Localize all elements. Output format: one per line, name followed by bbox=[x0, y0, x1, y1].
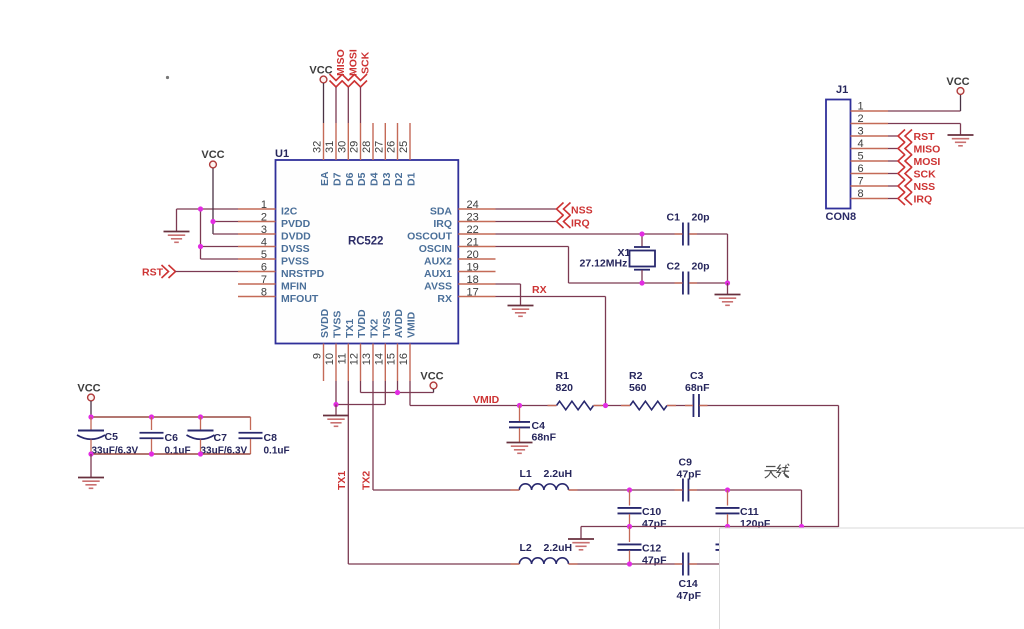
wire rail to ground bbox=[90, 454, 92, 477]
svg-text:D3: D3 bbox=[381, 172, 393, 186]
svg-text:C10: C10 bbox=[642, 506, 661, 518]
svg-text:26: 26 bbox=[386, 141, 398, 153]
wire VMID row bbox=[410, 405, 557, 407]
wire J1 MOSI bbox=[888, 160, 898, 162]
svg-text:MISO: MISO bbox=[335, 49, 347, 76]
svg-text:VCC: VCC bbox=[946, 76, 969, 88]
svg-text:0.1uF: 0.1uF bbox=[264, 446, 290, 457]
svg-text:28: 28 bbox=[361, 141, 373, 153]
svg-text:47pF: 47pF bbox=[642, 518, 667, 530]
resistor R1 bbox=[557, 401, 594, 410]
junction rail C6 bbox=[149, 414, 154, 419]
component terminal stubs bbox=[548, 405, 557, 407]
svg-text:SDA: SDA bbox=[430, 206, 453, 218]
wire osc right column bbox=[727, 234, 729, 283]
svg-text:OSCIN: OSCIN bbox=[419, 243, 452, 255]
off-page connector MOSI bbox=[342, 74, 355, 87]
wire AVSS to ground bbox=[496, 283, 521, 285]
J1 pin stubs bbox=[851, 110, 889, 112]
wire EA to VCC bbox=[323, 83, 325, 123]
wire OSCIN net bbox=[496, 246, 569, 248]
svg-text:C6: C6 bbox=[165, 432, 179, 444]
wire TX1 vertical bbox=[347, 381, 349, 564]
capacitor C3 bbox=[693, 394, 699, 417]
svg-text:PVDD: PVDD bbox=[281, 218, 311, 230]
svg-text:47pF: 47pF bbox=[642, 555, 667, 567]
ground left of U1 bbox=[164, 232, 190, 243]
svg-text:33uF/6.3V: 33uF/6.3V bbox=[201, 446, 248, 457]
svg-text:9: 9 bbox=[312, 353, 324, 359]
wire L2 to C14 bbox=[569, 563, 683, 565]
svg-text:VCC: VCC bbox=[420, 371, 443, 383]
svg-text:RST: RST bbox=[914, 131, 936, 143]
svg-text:D6: D6 bbox=[344, 172, 356, 186]
svg-text:R1: R1 bbox=[556, 370, 570, 382]
svg-text:AVSS: AVSS bbox=[424, 281, 452, 293]
svg-text:CON8: CON8 bbox=[826, 211, 857, 223]
svg-text:AUX2: AUX2 bbox=[424, 256, 452, 268]
svg-text:C5: C5 bbox=[105, 431, 119, 443]
svg-text:27.12MHz: 27.12MHz bbox=[580, 258, 628, 270]
power VCC decoupling bbox=[77, 383, 100, 401]
capacitor C13 partial under mask bbox=[727, 527, 729, 543]
svg-text:25: 25 bbox=[398, 141, 410, 153]
wire SDA net bbox=[496, 208, 557, 210]
ground J1 bbox=[948, 135, 974, 146]
svg-text:20p: 20p bbox=[692, 261, 710, 273]
capacitor C4 bbox=[519, 406, 521, 422]
svg-text:RST: RST bbox=[142, 267, 164, 279]
off-page connector NSS J1 side bbox=[898, 180, 912, 193]
svg-text:27: 27 bbox=[373, 141, 385, 153]
junction C11 top bbox=[725, 487, 730, 492]
wire TVSS pin14 bbox=[384, 381, 386, 405]
power VCC bottom bbox=[420, 371, 443, 389]
capacitor C2 bbox=[683, 272, 689, 295]
svg-text:TVSS: TVSS bbox=[332, 311, 344, 338]
junction C10 top bbox=[627, 487, 632, 492]
wire decoupling bottom rail bbox=[91, 453, 251, 455]
svg-text:31: 31 bbox=[324, 141, 336, 153]
svg-text:MFOUT: MFOUT bbox=[281, 293, 319, 305]
svg-text:EA: EA bbox=[319, 171, 331, 186]
junction VMID-C4 bbox=[517, 403, 522, 408]
svg-text:AUX1: AUX1 bbox=[424, 268, 452, 280]
wire J1 NSS bbox=[888, 185, 898, 187]
wire D5 to SCK bbox=[360, 87, 362, 123]
resistor R2 bbox=[630, 401, 667, 410]
svg-text:C4: C4 bbox=[532, 420, 546, 432]
svg-text:I2C: I2C bbox=[281, 206, 298, 218]
svg-text:NRSTPD: NRSTPD bbox=[281, 268, 325, 280]
ground decoupling bbox=[78, 478, 104, 489]
svg-text:VMID: VMID bbox=[473, 394, 500, 406]
wire D7 to MISO bbox=[335, 87, 337, 123]
svg-text:15: 15 bbox=[386, 353, 398, 365]
svg-text:IRQ: IRQ bbox=[433, 218, 452, 230]
off-page connector NSS bbox=[557, 203, 571, 216]
capacitor C8 bbox=[250, 417, 252, 430]
off-page connector IRQ chip side bbox=[557, 215, 571, 228]
svg-text:MOSI: MOSI bbox=[347, 49, 359, 76]
svg-text:2.2uH: 2.2uH bbox=[544, 468, 573, 480]
svg-text:MISO: MISO bbox=[914, 144, 941, 156]
svg-text:DVDD: DVDD bbox=[281, 231, 311, 243]
wire L1 to C9 bbox=[569, 489, 683, 491]
junction OSCOUT-X1 bbox=[639, 231, 644, 236]
off-page connector RST bbox=[162, 265, 176, 278]
capacitor C5 bbox=[90, 417, 92, 430]
ground mid rail bbox=[568, 539, 594, 550]
junction TVSS bbox=[333, 402, 338, 407]
svg-text:C12: C12 bbox=[642, 543, 661, 555]
wire AVDD pin15 bbox=[397, 381, 399, 393]
off-page connector MISO bbox=[330, 74, 343, 87]
wire TX2 vertical bbox=[372, 381, 374, 490]
wire R2 to C3 bbox=[667, 405, 694, 407]
svg-text:68nF: 68nF bbox=[532, 432, 557, 444]
svg-text:68nF: 68nF bbox=[685, 382, 710, 394]
capacitor C7 bbox=[200, 417, 202, 430]
wire J1 pin2 to ground bbox=[888, 123, 961, 125]
white cover box bbox=[720, 528, 1024, 629]
off-page connector RST J1 side bbox=[898, 130, 912, 143]
junction C12 bottom bbox=[627, 561, 632, 566]
svg-text:13: 13 bbox=[361, 353, 373, 365]
wire TVSS to ground bbox=[335, 405, 337, 416]
junction C10 bottom bbox=[627, 524, 632, 529]
svg-text:560: 560 bbox=[629, 382, 647, 394]
svg-text:VCC: VCC bbox=[201, 149, 224, 161]
node antenna label 天线 bbox=[765, 464, 790, 478]
wire J1 pin1 to VCC bbox=[888, 110, 961, 112]
svg-text:DVSS: DVSS bbox=[281, 243, 310, 255]
svg-text:C3: C3 bbox=[690, 370, 704, 382]
svg-text:NSS: NSS bbox=[914, 181, 936, 193]
junction OSCIN-X1 bbox=[639, 280, 644, 285]
svg-text:C9: C9 bbox=[679, 457, 693, 469]
svg-text:TX2: TX2 bbox=[361, 471, 373, 490]
ground C4 bbox=[507, 443, 533, 454]
svg-text:30: 30 bbox=[336, 141, 348, 153]
wire VCC to PVDD/DVDD bbox=[212, 168, 214, 234]
power VCC J1 bbox=[946, 76, 969, 94]
off-page connector MISO J1 side bbox=[898, 142, 912, 155]
svg-text:C8: C8 bbox=[264, 432, 278, 444]
svg-text:C7: C7 bbox=[214, 432, 228, 444]
svg-text:TX1: TX1 bbox=[336, 471, 348, 490]
svg-text:D1: D1 bbox=[406, 172, 418, 186]
svg-text:RX: RX bbox=[437, 293, 452, 305]
wire D6 to MOSI bbox=[347, 87, 349, 123]
wire OSCOUT net bbox=[496, 233, 684, 235]
svg-text:VCC: VCC bbox=[77, 383, 100, 395]
svg-text:RX: RX bbox=[532, 284, 547, 296]
svg-text:C11: C11 bbox=[740, 506, 759, 518]
off-page connector SCK J1 side bbox=[898, 167, 912, 180]
svg-text:16: 16 bbox=[398, 353, 410, 365]
wire VMID pin16 bbox=[409, 381, 411, 406]
wire pin5 PVSS bbox=[201, 258, 239, 260]
wire pin1 I2C bbox=[201, 208, 239, 210]
svg-text:TX2: TX2 bbox=[369, 319, 381, 338]
svg-text:MOSI: MOSI bbox=[914, 156, 941, 168]
wire J1 SCK bbox=[888, 173, 898, 175]
svg-text:47pF: 47pF bbox=[677, 590, 702, 602]
junction DVSS node bbox=[198, 244, 203, 249]
wire net I2C/DVSS/PVSS vertical bbox=[200, 209, 202, 259]
wire C3 to antenna column bbox=[699, 405, 839, 407]
svg-text:TX1: TX1 bbox=[344, 319, 356, 338]
wire RST to NRSTPD bbox=[176, 271, 239, 273]
svg-text:SCK: SCK bbox=[360, 51, 372, 74]
wire J1 RST bbox=[888, 135, 898, 137]
U1 right pin stubs bbox=[458, 208, 495, 210]
svg-text:TVDD: TVDD bbox=[356, 309, 368, 338]
svg-text:0.1uF: 0.1uF bbox=[165, 446, 191, 457]
svg-text:2.2uH: 2.2uH bbox=[544, 542, 573, 554]
junction bottom C6 bbox=[149, 451, 154, 456]
wire C9 right bbox=[689, 489, 802, 491]
wire TVSS pin10 bbox=[335, 381, 337, 405]
wire TVSS row bbox=[336, 404, 385, 406]
ground TVSS bbox=[323, 416, 349, 427]
wire IRQ net bbox=[496, 221, 557, 223]
IC U1 RC522 body bbox=[276, 160, 459, 344]
svg-text:11: 11 bbox=[336, 353, 348, 364]
svg-text:12: 12 bbox=[349, 353, 361, 365]
capacitor C14 bbox=[683, 553, 689, 576]
stray speck bbox=[166, 76, 169, 79]
wire TVDD row to VCC bbox=[361, 392, 434, 394]
capacitor C12 bbox=[629, 527, 631, 543]
wire C14 right bbox=[689, 563, 723, 565]
svg-text:33uF/6.3V: 33uF/6.3V bbox=[92, 446, 139, 457]
svg-text:PVSS: PVSS bbox=[281, 256, 309, 268]
svg-text:SVDD: SVDD bbox=[319, 308, 331, 338]
wire J1 MISO bbox=[888, 148, 898, 150]
off-page connector SCK bbox=[354, 74, 367, 87]
wire J1 IRQ bbox=[888, 198, 898, 200]
U1 bottom pin stubs bbox=[323, 344, 325, 382]
svg-text:47pF: 47pF bbox=[677, 469, 702, 481]
connector J1 CON8 body bbox=[826, 100, 851, 209]
capacitor C6 bbox=[151, 417, 153, 430]
U1 left pin stubs bbox=[238, 208, 276, 210]
svg-text:820: 820 bbox=[556, 382, 574, 394]
U1 top pin stubs bbox=[323, 123, 325, 160]
svg-text:10: 10 bbox=[324, 353, 336, 365]
wire to ground from node bbox=[177, 208, 201, 210]
junction PVDD bbox=[210, 219, 215, 224]
off-page connector MOSI J1 side bbox=[898, 155, 912, 168]
svg-text:D5: D5 bbox=[356, 172, 368, 186]
svg-text:RC522: RC522 bbox=[348, 236, 383, 248]
junction antenna column bbox=[799, 524, 804, 529]
off-page connector IRQ J1 side bbox=[898, 192, 912, 205]
svg-text:TVSS: TVSS bbox=[381, 311, 393, 338]
wire pin4 DVSS bbox=[201, 246, 239, 248]
inductor L2 bbox=[348, 563, 519, 565]
wire antenna corner down bbox=[801, 490, 803, 527]
ground AVSS bbox=[508, 306, 534, 317]
capacitor C11 bbox=[727, 490, 729, 506]
capacitor C1 bbox=[683, 223, 689, 246]
junction C2 right bbox=[725, 280, 730, 285]
svg-text:C2: C2 bbox=[667, 261, 681, 273]
svg-text:VMID: VMID bbox=[406, 311, 418, 338]
svg-text:IRQ: IRQ bbox=[914, 194, 933, 206]
wire R1 to R2 bbox=[594, 405, 631, 407]
crystal X1 bbox=[630, 234, 656, 283]
wire RX net bbox=[496, 296, 606, 298]
capacitor C9 bbox=[683, 479, 689, 502]
svg-text:L1: L1 bbox=[520, 468, 532, 480]
junction bottom C5 bbox=[88, 451, 93, 456]
svg-text:U1: U1 bbox=[275, 148, 289, 160]
junction I2C node bbox=[198, 206, 203, 211]
svg-text:D7: D7 bbox=[332, 172, 344, 186]
junction rail C7 bbox=[198, 414, 203, 419]
svg-text:L2: L2 bbox=[520, 542, 532, 554]
wire TVDD pin12 bbox=[360, 381, 362, 393]
svg-text:C1: C1 bbox=[667, 212, 681, 224]
inductor L1 bbox=[373, 489, 519, 491]
svg-text:AVDD: AVDD bbox=[393, 309, 405, 338]
svg-text:SCK: SCK bbox=[914, 169, 937, 181]
svg-text:OSCOUT: OSCOUT bbox=[407, 231, 453, 243]
svg-text:D2: D2 bbox=[393, 172, 405, 186]
svg-text:R2: R2 bbox=[629, 370, 643, 382]
svg-text:C14: C14 bbox=[679, 578, 698, 590]
svg-text:14: 14 bbox=[373, 353, 385, 365]
junction AVDD bbox=[395, 390, 400, 395]
svg-text:32: 32 bbox=[312, 141, 324, 153]
wire C2 to ground bbox=[727, 283, 729, 294]
capacitor C10 bbox=[629, 490, 631, 506]
power VCC left bbox=[201, 149, 224, 168]
junction bottom C7 bbox=[198, 451, 203, 456]
svg-text:NSS: NSS bbox=[571, 205, 593, 217]
wire decoupling top rail bbox=[91, 416, 251, 418]
svg-text:IRQ: IRQ bbox=[571, 218, 590, 230]
svg-text:D4: D4 bbox=[369, 172, 381, 186]
svg-text:29: 29 bbox=[349, 141, 361, 153]
junction rail C5 bbox=[88, 414, 93, 419]
junction RX-VMID bbox=[603, 403, 608, 408]
svg-text:J1: J1 bbox=[836, 84, 848, 96]
wire mid ground rail bbox=[581, 526, 839, 528]
svg-text:MFIN: MFIN bbox=[281, 281, 307, 293]
svg-text:20p: 20p bbox=[692, 212, 710, 224]
junction C11 bottom bbox=[725, 524, 730, 529]
power VCC top (EA pin 32) bbox=[309, 65, 332, 83]
ground oscillator bbox=[715, 295, 741, 306]
